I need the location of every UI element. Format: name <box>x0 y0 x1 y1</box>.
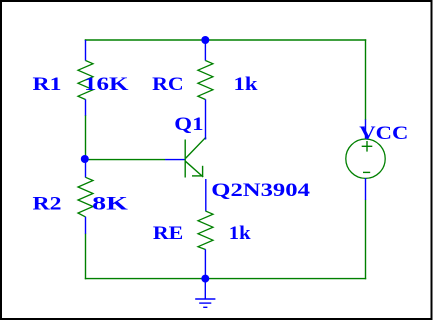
resistor RE <box>153 179 251 279</box>
transistor Q1 <box>165 114 311 201</box>
ground <box>195 279 215 308</box>
node dot bottom rail / ground <box>201 275 209 283</box>
wire base node to Q1 base <box>86 159 166 161</box>
svg-text:Q2N3904: Q2N3904 <box>211 180 310 201</box>
resistor RC <box>152 40 258 139</box>
svg-text:RE: RE <box>153 223 183 244</box>
node dot base <box>81 155 89 163</box>
wire bottom rail <box>85 278 366 280</box>
resistor R2 <box>33 159 129 234</box>
node dot top rail / RC <box>201 36 209 44</box>
svg-text:R2: R2 <box>33 194 62 215</box>
svg-text:1k: 1k <box>234 74 259 95</box>
wire base node to R2 <box>85 39 87 40</box>
svg-text:8K: 8K <box>92 194 128 215</box>
wire top rail <box>85 39 366 41</box>
resistor R1 <box>33 40 129 116</box>
wire right rail upper <box>365 39 367 120</box>
svg-text:VCC: VCC <box>359 123 408 144</box>
voltage source VCC <box>346 120 409 201</box>
svg-text:Q1: Q1 <box>174 114 203 135</box>
svg-text:1k: 1k <box>229 223 251 244</box>
svg-text:RC: RC <box>152 74 184 95</box>
svg-text:R1: R1 <box>33 74 62 95</box>
wire R1 to base node <box>85 115 87 159</box>
wire right rail lower <box>365 200 367 279</box>
svg-text:16K: 16K <box>84 74 129 95</box>
wire R2 to bottom rail <box>85 234 87 280</box>
